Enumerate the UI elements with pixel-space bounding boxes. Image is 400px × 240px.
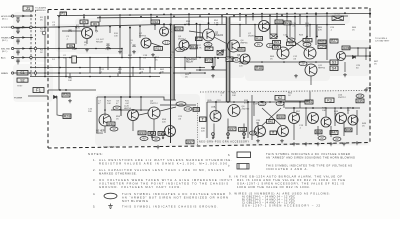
capacitor input row TRUNK SW [16,39,19,41]
timer box K3 [325,98,334,103]
ground input row ACC [16,60,20,64]
wire stub s1 [99,17,101,22]
junction j103 [299,101,301,103]
svg-text:R11: R11 [176,27,182,31]
junction x59 siren [58,72,60,74]
wire stub s12 [245,16,247,24]
wire bm x248 [247,102,249,138]
wire vertical feeder x229 [229,17,231,103]
wire stub s10 [170,14,172,24]
junction br a [293,107,295,109]
wire stub s57 [293,124,295,141]
resistor R47 box [330,131,338,135]
wire input row ACC [13,57,60,59]
resistor R42 box bm [270,131,277,135]
junction mv c [306,36,308,38]
junction j93 [65,76,67,78]
transistor Q22 [308,113,319,124]
wire input row DOOR SW [13,26,60,28]
wire input row HOOD SW [13,15,33,17]
junction Q3 collector [163,23,165,25]
ground stage1 b [106,46,110,50]
wire stub s54 [227,119,229,139]
terminal lb1 [151,132,154,138]
resistor R22 box [287,42,296,46]
junction j90 [189,72,191,74]
svg-text:R25: R25 [274,45,280,49]
voltage oval br2 [333,137,341,141]
junction j115 [283,61,285,63]
resistor R28 box [63,114,71,119]
voltage oval q7a [255,42,263,46]
junction j78 [170,67,172,69]
wire Q3 collector up [163,24,165,28]
svg-text:5.: 5. [93,204,95,208]
ground input row TRUNK SW [16,40,20,44]
junction j24 [173,15,175,17]
svg-text:R5: R5 [82,20,86,24]
wire stub s43 [299,102,301,108]
voltage oval q11 [299,61,307,65]
svg-text:2V: 2V [335,137,338,141]
junction j42 [170,24,172,26]
svg-text:R17: R17 [196,37,202,41]
svg-text:C16: C16 [186,107,191,111]
wire vertical feeder x130 [129,28,131,98]
junction j38 [109,26,111,28]
capacitor C24 box [318,45,326,49]
wire lb to mid [160,104,196,106]
junction j29 [269,15,271,17]
junction j21 [99,16,101,18]
ground bm6 [280,139,284,143]
wire stub s14 [299,15,301,25]
voltage oval relay [176,47,185,51]
wire input row IGN. SW [13,48,60,50]
wire stage2 base [130,28,142,41]
junction j27 [233,15,235,17]
wire br top [285,100,310,102]
junction busC x189 [188,24,190,26]
wire lower box div1 [104,97,106,116]
junction mv b [286,36,288,38]
wire stub s56 [257,122,259,138]
ground relay [211,74,215,78]
wire vertical feeder x316 [315,16,317,45]
junction j101 [269,101,271,103]
transistor Q4 [179,40,189,50]
junction bm d [261,101,263,103]
junction j11 [252,13,254,15]
voltage oval lb1 [113,106,121,110]
transistor Q7 [259,21,270,32]
junction j45 [216,24,218,26]
junction j7 [188,13,190,15]
junction busB x253 [252,16,254,18]
wire stub s19 [139,26,141,38]
junction Q5 collector [208,22,210,24]
switch S2 box [17,78,28,82]
resistor R13 box [154,46,163,50]
voltage oval C16 [184,107,192,111]
svg-text:ACC: ACC [1,57,6,60]
transistor Q19 [255,126,266,137]
wire stub s34 [214,58,216,67]
junction j28 [245,15,247,17]
transistor Q20 [278,126,289,137]
wire vertical feeder x174 [173,25,175,101]
wire stub s20 [154,25,156,30]
resistor R26 box [62,93,70,97]
ground stage1 d [132,50,136,54]
connector J1 box [23,6,33,11]
junction j100 [253,101,255,103]
junction out row1 x358 [357,47,359,49]
junction j1 [83,14,85,16]
ground lb1 [156,145,160,149]
wire stub s48 [347,108,349,114]
capacitor input row DOOR SW [16,29,19,31]
junction j114 [261,61,263,63]
diode arrow input row 1 [22,26,25,29]
resistor R17 box [196,37,203,41]
wire stub s62 [140,97,142,110]
chassis border top (dashed) [48,8,370,10]
svg-text:R6: R6 [93,22,97,26]
svg-text:9V: 9V [289,38,292,42]
wire out drop x345 [344,62,346,72]
input terminal circle t2 [12,36,14,38]
junction bm b [227,101,229,103]
resistor R46 box [315,130,322,134]
svg-text:C15: C15 [358,94,363,98]
svg-text:R37: R37 [187,140,193,144]
ground input row IGN. SW [16,51,20,55]
wire power row [28,95,48,97]
resistor R4 vertical box [72,56,77,63]
resistor R6 box [91,22,99,26]
wire row IGN extension [60,48,122,50]
capacitor C7h [222,49,223,52]
junction j57 [121,48,123,50]
wire stub s26 [309,25,311,38]
wire vertical feeder x59 [58,16,60,91]
transistor Q16 [165,126,176,137]
voltage oval br1 [318,136,326,140]
wire Q5-Q6 [214,37,228,44]
svg-text:P1: P1 [62,12,66,16]
junction j85 [99,72,101,74]
junction out row2 x366 [365,55,367,57]
chassis border left (dashed) [47,10,49,149]
input terminal circle t1 [12,26,14,28]
transistor Q14 [128,110,139,121]
note 6 box symbol [237,152,251,158]
voltage oval q7b [267,43,275,47]
junction j82 [44,72,46,74]
resistor R36 box [193,107,200,111]
input shield dashed line 2 [35,10,37,78]
wire bm cross 1 [262,108,281,126]
resistor R21 box b [273,40,281,44]
junction mv a [276,36,278,38]
bus wire B [97,16,348,18]
wire stub s21 [199,25,201,39]
junction j104 [293,107,295,109]
diode arrow input row 2 [22,36,25,39]
ground out b [364,88,368,92]
svg-text:4V: 4V [142,137,145,141]
junction j76 [132,67,134,69]
junction j19 [344,12,346,14]
junction j49 [289,24,291,26]
wire Q1 emitter [86,39,88,45]
input terminal circle t4 [12,56,14,58]
transistor Q10 [304,47,316,59]
junction j65 [154,57,156,59]
wire power drop [57,96,63,116]
wire stub s55 [243,124,245,139]
junction j97 [149,76,151,78]
input terminal circle t3 [12,47,14,49]
junction j62 [107,57,109,59]
junction j44 [199,24,201,26]
voltage oval Q5e [204,42,212,46]
junction j55 [95,48,97,50]
wire stub s53 [213,124,215,139]
junction j84 [79,72,81,74]
wire stub s52 [356,110,358,135]
terminal box TB2a [330,60,338,65]
wire q11 drop [310,76,312,85]
junction bm a [247,101,249,103]
resistor R40 box [277,115,285,119]
wire stub s6 [252,14,254,21]
junction j75 [119,67,121,69]
junction relay b [199,69,201,71]
svg-text:R12: R12 [152,20,158,24]
resistor R48 box [345,128,352,132]
capacitor input row IGN. SW [16,50,19,52]
junction bm c [215,101,217,103]
wire stub s39 [132,68,134,77]
bus wire C (row 2 feed) [13,25,345,29]
svg-text:.2V: .2V [305,43,309,47]
junction j117 [315,61,317,63]
wire Q5 collector [208,17,210,30]
svg-text:THIS SYMBOL INDICATES CHASSIS: THIS SYMBOL INDICATES CHASSIS GROUND. [122,204,218,208]
wire stub s40 [215,102,217,113]
wire relay drop [212,58,214,66]
svg-text:R16: R16 [226,58,233,62]
svg-text:R19: R19 [256,36,262,40]
voltage oval bm2 [276,101,284,105]
junction j66 [170,57,172,59]
junction j51 [326,24,328,26]
junction power row b [65,89,67,91]
svg-text:6V: 6V [178,48,181,52]
resistor R21 box [284,21,291,25]
diode D6 [353,56,356,59]
input terminal circle t0 [12,15,14,17]
junction lb a [129,96,131,98]
wire stub s29 [107,58,109,71]
junction j41 [154,24,156,26]
resistor R23 box [303,38,312,42]
junction j33 [29,27,31,29]
voltage oval lb3 [140,137,148,141]
junction br d [352,107,354,109]
svg-text:2.2: 2.2 [165,41,169,45]
transistor Q18 [228,105,240,117]
svg-text:1. ALL RESISTORS ARE 1/2 WATT: 1. ALL RESISTORS ARE 1/2 WATT UNLESS MAR… [93,158,232,166]
junction bus/border right [369,12,371,14]
diode D4 [54,96,57,99]
svg-text:S3: S3 [332,61,337,65]
input shield dashed line 1 [30,10,32,78]
junction j74 [99,67,101,69]
wire bm cross 2 [262,108,281,126]
junction x59 row2 [58,26,60,28]
wire vertical feeder x170 [170,25,172,144]
junction j67 [184,57,186,59]
wire stub s47 [334,108,336,126]
svg-text:R65: R65 [319,40,325,44]
connector bubble b1 [34,47,36,49]
wire stub s13 [269,15,271,34]
wire right mid bus [240,61,330,63]
wire bm x252 [251,95,253,140]
chassis border right (dashed) [369,8,371,143]
section divider (dotted) [200,91,370,93]
wire stub s31 [139,58,141,71]
voltage oval lb4 [152,137,160,141]
terminal bm2 [227,133,230,139]
svg-text:7.: 7. [228,164,230,168]
junction j73 [79,67,81,69]
junction j59 [44,57,46,59]
junction x120 busC [119,26,121,28]
wire stub s28 [89,58,91,71]
resistor R20 box [275,20,283,24]
terminal bm3 [243,133,246,139]
wire stub s22 [239,25,241,38]
wire out row3 [366,87,370,89]
junction j8 [208,13,210,15]
terminal bm1 [212,133,215,139]
svg-text:K3: K3 [327,99,332,103]
capacitor C6 [132,45,135,47]
transistor Q5 [203,29,215,41]
resistor R65 box [318,40,326,44]
ground br4 [329,142,333,146]
transistor Q3 [160,27,169,36]
wire x196 drop [196,24,198,59]
junction j13 [276,13,278,15]
wire Q1 base feed [62,30,82,32]
resistor R29 box [342,46,350,50]
junction busB x277 [276,16,278,18]
transistor Q6 [228,40,240,52]
ground bm5 [256,139,260,143]
wire stub s44 [293,108,295,113]
wire stub s60 [153,119,155,131]
junction j0 [58,16,60,18]
voltage oval C9 [176,102,186,106]
junction j86 [119,72,121,74]
diode arrow input row 3 [22,47,25,50]
resistor R15 box [205,58,213,63]
svg-text:R36: R36 [193,107,199,111]
junction j116 [299,61,301,63]
diode arrow input row 0 [22,15,25,18]
wire mv v1 [276,25,278,37]
svg-text:R: R [272,131,274,135]
svg-text:R48: R48 [346,128,352,132]
resistor R16 box [226,57,233,62]
svg-text:(N.O.): (N.O.) [2,19,8,21]
svg-text:9V: 9V [269,44,272,48]
junction j37 [95,26,97,28]
wire stub s51 [343,122,345,136]
ground input row HOOD SW [16,19,20,23]
junction j18 [326,12,328,14]
capacitor C14 box bm [239,127,247,131]
junction j10 [239,13,241,15]
junction j54 [75,48,77,50]
wire stub s23 [254,25,256,37]
resistor R18 box [255,66,263,70]
wire stub s18 [109,27,111,33]
wire x120 drop [119,27,121,50]
transistor Q15 [148,107,160,119]
wire stub s11 [221,16,223,24]
svg-text:R26: R26 [63,93,69,97]
svg-text:9V: 9V [257,43,260,47]
svg-text:S2: S2 [20,78,24,82]
resistor R18b box [238,47,245,51]
fuse F1 box [33,88,44,93]
junction input row IGN. SW at shield [30,48,32,50]
wire stub s65 [117,73,119,77]
svg-text:(N.O.): (N.O.) [2,40,8,42]
junction j53 [44,48,46,50]
scan blur halos [50,9,370,146]
terminal box TB2b [330,66,338,71]
svg-text:R47: R47 [331,131,337,135]
wire stub s2 [119,15,121,27]
svg-text:R23: R23 [305,38,310,42]
junction input row ACC at shield [30,57,32,59]
capacitor input row ACC [16,59,19,61]
junction j77 [149,67,151,69]
junction x130 bus C [129,27,131,29]
resistor R41 box [267,119,275,123]
connector bubble b2 [30,56,32,58]
svg-text:F2 5A: F2 5A [334,13,340,16]
wire row ACC extension [60,57,238,59]
wire stub s58 [104,126,106,133]
ground input row DOOR SW [16,30,20,34]
resistor R11 box [175,27,183,31]
resistor R37 box [186,140,194,144]
svg-text:TO ALARMHARNESS: TO ALARMHARNESS [35,7,46,13]
wire bm box left [206,102,208,138]
svg-text:R14: R14 [191,45,197,49]
junction j58 [29,57,31,59]
ground br1 [292,142,296,146]
svg-text:F1: F1 [36,88,42,93]
